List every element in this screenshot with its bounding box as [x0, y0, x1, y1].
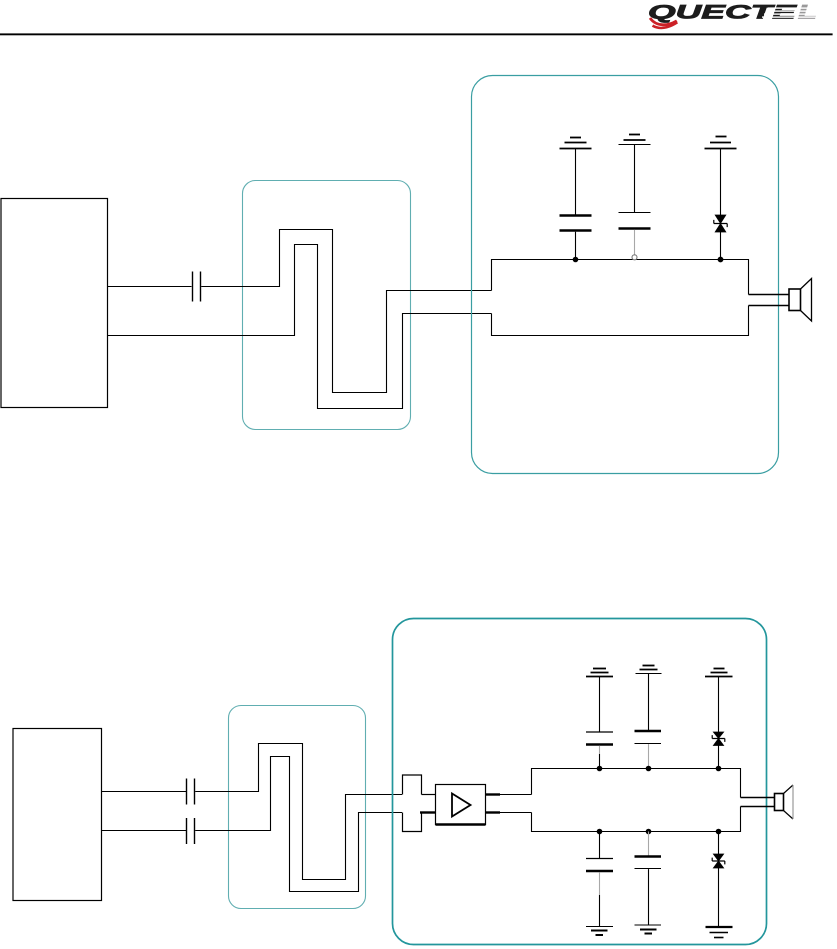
junction trace loop U1	[492, 260, 749, 336]
bypass capacitor C6 with ground (top)	[586, 669, 613, 772]
amplifier box U2	[436, 785, 486, 825]
speaker wire -	[749, 305, 790, 307]
TVS diode D2 with ground (top)	[705, 669, 733, 772]
wire AOUT+	[108, 286, 192, 288]
meander2 trace SPK-	[195, 757, 402, 892]
speaker LS1	[789, 279, 812, 322]
module block M1	[1, 199, 108, 408]
TVS diode D1 with ground	[705, 137, 737, 263]
TVS diode D3 with ground (bottom)	[706, 829, 733, 938]
wire SPK-	[102, 830, 187, 832]
header rule	[0, 33, 833, 35]
filter box 2 (small teal rounded)	[229, 706, 366, 909]
speaker wire 2-	[741, 806, 775, 808]
matching network cross X1	[403, 775, 422, 832]
speaker wire +	[749, 294, 790, 296]
wire SPK+	[102, 791, 187, 793]
capacitor C1	[193, 272, 201, 302]
meander2 trace SPK+	[195, 744, 402, 880]
junction trace loop U3	[532, 769, 741, 832]
module block M2	[13, 729, 102, 901]
optional capacitor C3 (NM) with ground	[619, 135, 651, 260]
svg-text:QUECTE: QUECTE	[648, 3, 798, 24]
filter box (small teal rounded)	[243, 181, 411, 430]
speaker wire 2+	[741, 797, 775, 799]
speaker LS2	[775, 785, 794, 819]
optional capacitor C7 (NM) with ground (top)	[635, 666, 662, 772]
meander trace SPK+	[201, 230, 491, 393]
capacitor C5	[187, 818, 195, 844]
speaker network box (big teal rounded)	[472, 76, 779, 474]
optional capacitor C9 (NM) with ground (bottom)	[635, 829, 662, 934]
Quectel logo wordmark	[648, 3, 822, 24]
logo red swoosh	[650, 18, 677, 28]
amp output pin wires	[486, 795, 532, 813]
svg-text:L: L	[798, 3, 817, 24]
speaker network box 2 (big teal rounded)	[393, 619, 767, 945]
amp input pin wires	[420, 795, 436, 813]
meander trace SPK-	[108, 245, 492, 409]
amplifier triangle	[452, 794, 471, 817]
bypass capacitor C2 with ground	[560, 138, 592, 263]
capacitor C8 with ground (bottom)	[586, 829, 613, 935]
capacitor C4	[187, 779, 195, 805]
